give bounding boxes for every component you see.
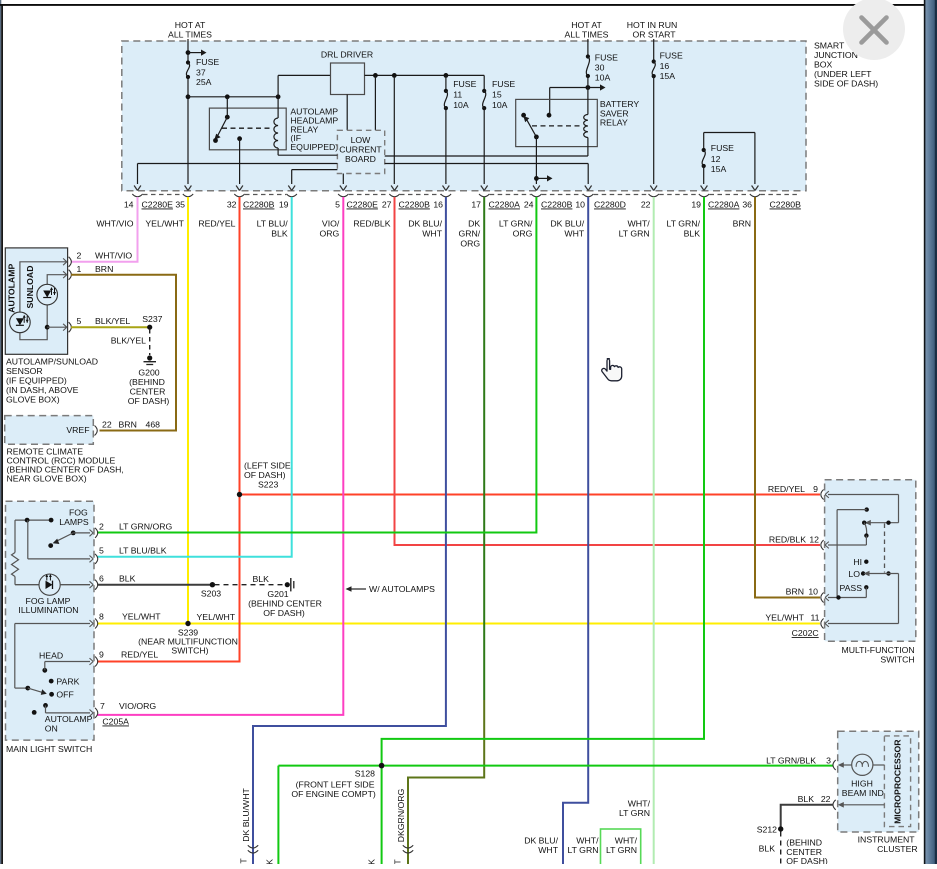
svg-text:C2280E: C2280E xyxy=(142,200,174,210)
svg-text:25A: 25A xyxy=(196,77,212,87)
svg-text:BRN: BRN xyxy=(733,219,751,229)
svg-text:WHT/: WHT/ xyxy=(627,219,650,229)
label: K (LT GRN/BLK left branch) xyxy=(265,859,275,865)
svg-text:YEL/WHT: YEL/WHT xyxy=(122,612,161,622)
label: LOW CURRENT BOARD xyxy=(339,135,382,164)
svg-text:19: 19 xyxy=(279,200,289,210)
svg-text:SMART: SMART xyxy=(814,41,845,51)
wire DK GRN/ORG: lower jog to bottom connector T xyxy=(408,700,484,864)
svg-text:T: T xyxy=(239,858,249,864)
mouse hand cursor xyxy=(602,359,622,381)
svg-text:JUNCTION: JUNCTION xyxy=(814,50,858,60)
MLS pin 9 xyxy=(90,650,159,667)
svg-text:FUSE: FUSE xyxy=(196,57,219,67)
svg-text:17: 17 xyxy=(471,200,481,210)
svg-text:RED/BLK: RED/BLK xyxy=(769,535,806,545)
label: YEL/WHT YEL/WHT around S239 xyxy=(197,612,236,622)
wire: fuse 15 to pin 17 xyxy=(483,108,485,184)
wire WHT/LT GRN: pin 22 to bottom xyxy=(653,197,655,864)
svg-text:LT BLU/BLK: LT BLU/BLK xyxy=(119,546,167,556)
svg-text:8: 8 xyxy=(99,612,104,622)
svg-text:BOX: BOX xyxy=(814,60,833,70)
svg-text:BOARD: BOARD xyxy=(345,154,376,164)
svg-text:LT GRN/BLK: LT GRN/BLK xyxy=(766,756,816,766)
MFS pin 9 xyxy=(768,484,829,500)
close button xyxy=(843,0,905,60)
wire WHT/VIO: pin 14 to sensor pin 2 xyxy=(71,197,138,262)
wire DK GRN/ORG: pin 17 down xyxy=(483,197,485,700)
splice S212 xyxy=(757,825,784,835)
splice S128 xyxy=(379,763,385,769)
svg-text:DRL DRIVER: DRL DRIVER xyxy=(321,50,373,60)
svg-text:CURRENT: CURRENT xyxy=(339,145,382,155)
svg-text:VIO/ORG: VIO/ORG xyxy=(119,701,156,711)
svg-text:LOW: LOW xyxy=(351,135,372,145)
label: HIGH BEAM IND xyxy=(842,778,884,798)
ground G201 xyxy=(285,578,294,591)
svg-text:HOT IN RUN: HOT IN RUN xyxy=(627,20,678,30)
svg-text:LT GRN: LT GRN xyxy=(606,845,637,855)
svg-text:LT GRN/: LT GRN/ xyxy=(667,219,701,229)
label: MAIN LIGHT SWITCH xyxy=(6,744,92,754)
label: FOG LAMPS xyxy=(59,508,89,527)
svg-text:FUSE: FUSE xyxy=(711,143,734,153)
svg-text:K: K xyxy=(265,859,275,864)
sensor pin 5 xyxy=(63,316,130,332)
svg-text:WHT/: WHT/ xyxy=(628,799,651,809)
fuse 16 15A xyxy=(652,51,683,82)
svg-text:LT GRN: LT GRN xyxy=(619,808,650,818)
svg-text:C2280A: C2280A xyxy=(708,200,740,210)
wire: DRL driver output bus xyxy=(365,73,485,78)
svg-text:MICROPROCESSOR: MICROPROCESSOR xyxy=(893,739,903,824)
label: DK BLU/WHT (rotated, wire to T) xyxy=(241,788,251,842)
svg-text:2: 2 xyxy=(77,251,82,261)
svg-text:OF ENGINE COMPT): OF ENGINE COMPT) xyxy=(291,789,376,799)
connector names C2280x xyxy=(142,200,802,210)
svg-text:BLK/YEL: BLK/YEL xyxy=(95,316,130,326)
wire YEL/WHT: pin 35 to S239 xyxy=(187,197,189,624)
svg-text:WHT/: WHT/ xyxy=(615,836,638,846)
svg-text:AUTOLAMP: AUTOLAMP xyxy=(45,714,93,724)
svg-text:10: 10 xyxy=(808,587,818,597)
main light switch box xyxy=(6,501,95,740)
autolamp headlamp relay xyxy=(209,97,286,155)
svg-text:BLK: BLK xyxy=(684,229,701,239)
svg-text:FUSE: FUSE xyxy=(595,52,618,62)
fuse 37 25A xyxy=(186,57,219,87)
svg-text:LO: LO xyxy=(848,569,860,579)
svg-text:OF DASH): OF DASH) xyxy=(244,470,286,480)
fuse 15 10A xyxy=(482,75,515,110)
node: battery saver feed junction with arrow xyxy=(550,84,606,115)
svg-text:WHT/VIO: WHT/VIO xyxy=(96,219,133,229)
svg-text:(IF EQUIPPED): (IF EQUIPPED) xyxy=(6,376,67,386)
svg-text:VIO/: VIO/ xyxy=(322,219,340,229)
svg-text:OFF: OFF xyxy=(56,690,73,700)
svg-text:468: 468 xyxy=(146,420,161,430)
label: AUTOLAMP HEADLAMP RELAY (IF EQUIPPED) xyxy=(290,107,338,153)
low current board xyxy=(337,130,384,173)
multi-function switch box xyxy=(825,480,916,641)
svg-text:10A: 10A xyxy=(595,73,611,83)
svg-text:15: 15 xyxy=(492,90,502,100)
label: (BEHIND CENTER OF DASH) xyxy=(786,838,828,867)
svg-text:INSTRUMENT: INSTRUMENT xyxy=(858,835,916,845)
svg-text:WHT/VIO: WHT/VIO xyxy=(95,251,132,261)
svg-text:37: 37 xyxy=(196,68,206,78)
wire BLK: cluster pin 22 to S212 xyxy=(781,805,833,829)
label: WHT/LT GRN (pale green wire) xyxy=(619,799,651,819)
photodiode: autolamp xyxy=(10,312,31,333)
svg-text:WHT: WHT xyxy=(422,229,442,239)
label: AUTOLAMP/SUNLOAD SENSOR (IF EQUIPPED) (IN DASH, ABOVE GLOVE BOX) xyxy=(6,357,98,405)
svg-text:11: 11 xyxy=(810,613,819,623)
svg-text:SWITCH: SWITCH xyxy=(880,655,914,665)
svg-text:EQUIPPED): EQUIPPED) xyxy=(290,142,338,152)
wire DK BLU/WHT: pin 16 to bottom connector T xyxy=(253,197,446,864)
splice S237 xyxy=(142,314,162,330)
svg-text:K: K xyxy=(367,859,377,864)
svg-text:BLK: BLK xyxy=(798,794,815,804)
svg-text:GRN/: GRN/ xyxy=(458,229,480,239)
label: G200 (BEHIND CENTER OF DASH) xyxy=(128,368,170,407)
svg-text:RED/YEL: RED/YEL xyxy=(121,650,158,660)
svg-text:AUTOLAMP: AUTOLAMP xyxy=(7,264,17,313)
label: C205A xyxy=(102,717,129,727)
LED: fog lamp illumination xyxy=(39,574,90,595)
svg-text:VREF: VREF xyxy=(66,425,89,435)
head/park/off switch xyxy=(15,624,90,697)
wire: LCB to battery saver coil xyxy=(385,155,588,157)
wire LT GRN/ORG: pin 24 to MLS pin 2 xyxy=(97,197,536,533)
svg-text:GLOVE BOX): GLOVE BOX) xyxy=(6,395,60,405)
SJB bottom connector arrows xyxy=(134,186,758,191)
svg-text:14: 14 xyxy=(124,200,134,210)
svg-text:DK BLU/: DK BLU/ xyxy=(524,836,558,846)
svg-text:ON: ON xyxy=(45,724,58,734)
label: HEAD xyxy=(39,651,63,661)
splice S239 xyxy=(185,621,190,626)
sensor pin 1 xyxy=(63,264,113,280)
label: HI LO PASS xyxy=(839,557,862,593)
svg-text:35: 35 xyxy=(175,200,185,210)
ground G200 xyxy=(144,355,157,364)
svg-text:BLK/YEL: BLK/YEL xyxy=(111,336,146,346)
svg-text:16: 16 xyxy=(433,200,443,210)
power feed: HOT AT ALL TIMES (fuse 30) xyxy=(565,20,609,57)
wire BLK dashed: S203 to G201 xyxy=(215,574,286,585)
svg-text:BLK: BLK xyxy=(271,229,288,239)
power feed: HOT IN RUN OR START (fuse 16) xyxy=(627,20,678,62)
svg-text:C2280B: C2280B xyxy=(399,200,431,210)
svg-text:12: 12 xyxy=(711,154,721,164)
svg-text:YEL/WHT: YEL/WHT xyxy=(145,219,184,229)
cluster pin 3 xyxy=(766,756,836,771)
svg-text:LT GRN: LT GRN xyxy=(619,229,650,239)
svg-text:15A: 15A xyxy=(711,164,727,174)
wire: LCB bottom to pin 5 xyxy=(342,174,344,185)
wire LT GRN/BLK: pin 19 to S128 xyxy=(382,197,704,766)
wire: relay feed to DRL driver xyxy=(278,75,330,96)
svg-text:32: 32 xyxy=(227,200,237,210)
svg-text:FUSE: FUSE xyxy=(660,51,683,61)
svg-text:RELAY: RELAY xyxy=(600,117,628,127)
svg-text:C205A: C205A xyxy=(102,717,129,727)
connector pin numbers xyxy=(124,200,752,210)
svg-text:YEL/WHT: YEL/WHT xyxy=(197,612,236,622)
connector T on DK BLU/WHT xyxy=(239,845,259,863)
svg-text:(BEHIND: (BEHIND xyxy=(786,838,822,848)
wire BLK: MLS pin 6 to S203 xyxy=(97,584,212,586)
svg-text:ILLUMINATION: ILLUMINATION xyxy=(18,605,78,615)
svg-text:MAIN LIGHT SWITCH: MAIN LIGHT SWITCH xyxy=(6,744,92,754)
note: W/ AUTOLAMPS arrow xyxy=(346,584,436,594)
wire: pin 14 internal line xyxy=(138,164,338,185)
label: PARK xyxy=(56,677,79,687)
connector T on DKGRN/ORG xyxy=(393,845,414,864)
svg-text:SENSOR: SENSOR xyxy=(6,366,43,376)
svg-text:AUTOLAMP/SUNLOAD: AUTOLAMP/SUNLOAD xyxy=(6,357,98,367)
fuse 11 10A xyxy=(444,75,477,110)
label: AUTOLAMP ON xyxy=(45,714,93,734)
scrollbar xyxy=(925,0,937,864)
wire BLK/YEL dashed to ground xyxy=(111,329,150,355)
wire VIO/ORG: pin 5 to MLS pin 7 xyxy=(97,197,343,715)
label: (LEFT SIDE OF DASH) S223 xyxy=(244,461,291,490)
svg-text:ALL TIMES: ALL TIMES xyxy=(565,30,609,40)
svg-text:DK: DK xyxy=(468,219,480,229)
label: K (LT GRN/BLK right branch) xyxy=(367,859,377,865)
wire: fuse 37 to relay bus xyxy=(186,77,281,184)
svg-text:LT BLU/: LT BLU/ xyxy=(257,219,289,229)
label: OFF xyxy=(56,690,73,700)
svg-text:RED/YEL: RED/YEL xyxy=(768,484,805,494)
sensor pin 2 xyxy=(63,251,132,267)
node: feed junction with right arrow xyxy=(186,50,207,56)
svg-text:WHT: WHT xyxy=(538,845,558,855)
svg-text:C202C: C202C xyxy=(792,628,819,638)
svg-text:ORG: ORG xyxy=(320,229,340,239)
wire BRN: sensor pin 1 to RCC VREF xyxy=(71,275,176,431)
svg-text:FUSE: FUSE xyxy=(453,79,476,89)
svg-text:S128: S128 xyxy=(355,769,375,779)
high beam indicator lamp xyxy=(838,754,885,775)
svg-text:BRN: BRN xyxy=(786,587,804,597)
svg-text:10A: 10A xyxy=(492,100,508,110)
svg-text:LT GRN/ORG: LT GRN/ORG xyxy=(119,522,172,532)
svg-text:(LEFT SIDE: (LEFT SIDE xyxy=(244,461,291,471)
wire RED/YEL: pin 32 to MLS pin 9 xyxy=(97,197,240,662)
svg-text:22: 22 xyxy=(821,794,831,804)
svg-text:MULTI-FUNCTION: MULTI-FUNCTION xyxy=(841,645,914,655)
svg-text:3: 3 xyxy=(826,756,831,766)
cluster pin 22 xyxy=(798,794,885,810)
microprocessor box xyxy=(884,736,910,827)
wire DK BLU/WHT: pin 10 to bottom xyxy=(563,197,588,864)
svg-text:30: 30 xyxy=(595,63,605,73)
autolamp on contacts xyxy=(32,703,90,715)
splice S223 xyxy=(237,492,242,497)
svg-text:HI: HI xyxy=(853,557,862,567)
connector box WHT/LT GRN xyxy=(601,829,641,865)
smart junction box enclosure xyxy=(122,41,806,191)
label: FOG LAMP ILLUMINATION xyxy=(18,596,78,615)
fuse 30 10A xyxy=(586,52,618,82)
svg-text:10: 10 xyxy=(575,200,585,210)
svg-text:PASS: PASS xyxy=(839,583,862,593)
fog lamp switch xyxy=(15,518,90,559)
svg-text:FUSE: FUSE xyxy=(492,79,515,89)
wire LT GRN/BLK: S128 bus to instrument cluster pin 3 xyxy=(278,765,833,767)
svg-text:DK BLU/WHT: DK BLU/WHT xyxy=(241,788,251,842)
svg-text:PARK: PARK xyxy=(56,677,79,687)
sensor internal wiring xyxy=(20,262,67,340)
label: AUTOLAMP (rotated) xyxy=(7,264,17,313)
svg-text:9: 9 xyxy=(813,484,818,494)
svg-text:RED/BLK: RED/BLK xyxy=(353,219,390,229)
svg-text:16: 16 xyxy=(660,61,670,71)
svg-text:DK BLU/: DK BLU/ xyxy=(408,219,442,229)
svg-text:BRN: BRN xyxy=(119,420,137,430)
label: MULTI-FUNCTION SWITCH xyxy=(841,645,914,665)
svg-text:(BEHIND: (BEHIND xyxy=(129,377,165,387)
SJB bottom connector arcs xyxy=(132,194,760,197)
svg-text:LT GRN: LT GRN xyxy=(567,845,598,855)
wire: battery saver output to pin 24 xyxy=(534,137,553,184)
svg-text:22: 22 xyxy=(641,200,651,210)
svg-text:WHT/: WHT/ xyxy=(576,836,599,846)
svg-text:BLK: BLK xyxy=(252,574,269,584)
svg-text:LAMPS: LAMPS xyxy=(59,517,89,527)
label: INSTRUMENT CLUSTER xyxy=(858,835,918,855)
svg-text:C2280E: C2280E xyxy=(347,200,379,210)
wire: relay coil to LCB (left) xyxy=(278,154,337,156)
svg-text:2: 2 xyxy=(99,522,104,532)
svg-text:(BEHIND CENTER: (BEHIND CENTER xyxy=(248,599,322,609)
MFS internal circuit xyxy=(828,495,899,624)
wire LT BLU/BLK: pin 19 to MLS pin 5 xyxy=(97,197,292,557)
svg-text:ALL TIMES: ALL TIMES xyxy=(168,30,212,40)
svg-text:5: 5 xyxy=(77,316,82,326)
svg-text:T: T xyxy=(393,859,403,864)
svg-text:6: 6 xyxy=(99,574,104,584)
label: G201 (BEHIND CENTER OF DASH) xyxy=(248,589,322,618)
svg-text:G201: G201 xyxy=(267,589,288,599)
svg-text:5: 5 xyxy=(99,546,104,556)
wire BLK dashed below S212 xyxy=(759,832,781,865)
svg-text:15A: 15A xyxy=(660,71,676,81)
svg-text:RED/YEL: RED/YEL xyxy=(198,219,235,229)
fuse 12 15A loop (pins 36 to 19) xyxy=(702,133,755,185)
svg-text:22: 22 xyxy=(102,420,112,430)
svg-text:BLK: BLK xyxy=(759,844,776,854)
MFS pin 12 xyxy=(769,535,829,551)
svg-text:S237: S237 xyxy=(142,314,162,324)
label: REMOTE CLIMATE CONTROL (RCC) MODULE (BEHIND CENTER OF DASH, NEAR GLOVE BOX) xyxy=(7,447,124,484)
wire: DRL bottom to low current board xyxy=(346,95,348,131)
resistor: fog lamp illumination xyxy=(12,520,39,585)
svg-text:W/ AUTOLAMPS: W/ AUTOLAMPS xyxy=(369,584,435,594)
svg-text:BLK: BLK xyxy=(119,574,136,584)
svg-text:OF DASH): OF DASH) xyxy=(263,608,305,618)
wire colour labels under connectors xyxy=(96,219,751,249)
svg-text:C2280B: C2280B xyxy=(541,200,573,210)
svg-text:SWITCH): SWITCH) xyxy=(171,646,208,656)
svg-text:C2280D: C2280D xyxy=(594,200,626,210)
svg-text:12: 12 xyxy=(809,535,819,545)
RCC VREF pin xyxy=(66,425,97,436)
connector bracket dashes xyxy=(143,194,800,196)
MLS pin 7 xyxy=(90,701,157,718)
svg-text:OR START: OR START xyxy=(632,30,676,40)
svg-text:C2280B: C2280B xyxy=(243,200,275,210)
svg-text:LT GRN/: LT GRN/ xyxy=(499,219,533,229)
wire LT GRN/BLK: S128 branch down left xyxy=(277,766,279,864)
wire: bus drop to low current board xyxy=(374,75,376,130)
photodiode: sunload xyxy=(37,284,58,305)
svg-text:36: 36 xyxy=(742,200,752,210)
label: C202C xyxy=(792,628,819,638)
label: SUNLOAD (rotated) xyxy=(25,266,35,309)
wire: fuse 11 to pin 16 xyxy=(445,108,447,184)
wire LT GRN/BLK: S128 branch down xyxy=(381,766,383,864)
svg-text:27: 27 xyxy=(382,200,392,210)
svg-text:S223: S223 xyxy=(258,480,278,490)
wire: fuse 16 to pin 22 xyxy=(653,76,655,184)
autolamp/sunload sensor box xyxy=(5,248,67,354)
svg-text:HOT AT: HOT AT xyxy=(175,20,206,30)
label: SMART JUNCTION BOX (UNDER LEFT SIDE OF DASH) xyxy=(814,41,878,89)
svg-text:10A: 10A xyxy=(453,100,469,110)
wire BLK/YEL: sensor pin 5 to S237 xyxy=(71,326,150,328)
svg-text:1: 1 xyxy=(77,264,82,274)
svg-text:(UNDER LEFT: (UNDER LEFT xyxy=(814,69,872,79)
svg-text:24: 24 xyxy=(524,200,534,210)
wire RED/BLK: pin 27 to MFS pin 12 xyxy=(395,197,821,545)
label: S239 (NEAR MULTIFUNCTION SWITCH) xyxy=(138,628,238,656)
svg-text:HIGH: HIGH xyxy=(851,778,873,788)
svg-text:WHT: WHT xyxy=(564,229,584,239)
DRL driver module xyxy=(331,63,365,95)
wire: LCB to pin 10 xyxy=(385,164,589,185)
svg-text:S212: S212 xyxy=(757,825,777,835)
svg-text:BRN: BRN xyxy=(95,264,113,274)
svg-text:C2280A: C2280A xyxy=(489,200,521,210)
wire RED/YEL: S223 to MFS pin 9 xyxy=(240,494,821,496)
MFS pin 11 xyxy=(765,613,828,629)
wire: bus drop to pin 27 xyxy=(393,75,395,184)
svg-text:CENTER: CENTER xyxy=(130,387,166,397)
remote climate control module box xyxy=(5,416,94,445)
MLS pin 6 xyxy=(90,574,136,590)
label: MICROPROCESSOR (rotated) xyxy=(893,739,903,824)
label: S128 (FRONT LEFT SIDE OF ENGINE COMPT) xyxy=(291,769,376,800)
svg-text:DK BLU/: DK BLU/ xyxy=(550,219,584,229)
wire: relay output to pin 32 xyxy=(239,139,241,184)
MLS pin 2 xyxy=(90,522,173,538)
MFS pin 10 xyxy=(786,587,829,603)
label: WHT/LT GRN (left of green box) xyxy=(567,836,599,856)
svg-text:SIDE OF DASH): SIDE OF DASH) xyxy=(814,79,878,89)
label: BATTERY SAVER RELAY xyxy=(600,99,639,127)
power feed: HOT AT ALL TIMES (fuse 37) xyxy=(168,20,212,63)
svg-text:OF DASH): OF DASH) xyxy=(786,856,828,864)
label: DKGRN/ORG (rotated) xyxy=(396,788,406,842)
svg-text:HOT AT: HOT AT xyxy=(571,20,602,30)
svg-text:S203: S203 xyxy=(201,589,221,599)
svg-text:DKGRN/ORG: DKGRN/ORG xyxy=(396,788,406,842)
